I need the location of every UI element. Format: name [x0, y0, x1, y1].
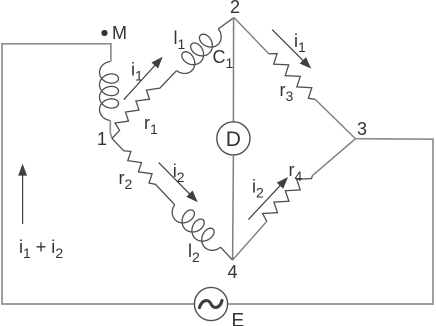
inductor l1 — [177, 29, 222, 74]
current arrow i1+i2 (left branch, upward) — [19, 166, 26, 225]
svg-text:i1 + i2: i1 + i2 — [19, 237, 63, 261]
svg-text:2: 2 — [230, 0, 240, 17]
svg-text:E: E — [232, 311, 245, 326]
resistor r2 — [112, 138, 175, 204]
inductor l2 — [172, 205, 220, 251]
svg-text:D: D — [226, 128, 241, 151]
resistor r3 — [269, 54, 315, 100]
ac source E circle — [194, 287, 227, 320]
inductor coil M branch (vertical coil) — [100, 62, 119, 121]
wire left branch outer loop: top horizontal + left vertical + bottom to source — [2, 44, 194, 304]
svg-text:r3: r3 — [280, 80, 294, 104]
wire coil to node 1 — [110, 121, 112, 139]
wire detector to node 4 — [232, 155, 235, 260]
current arrow i2 (arm 1-4) — [159, 163, 197, 201]
wire node 2 to resistor r3 — [234, 18, 269, 54]
svg-text:M: M — [112, 23, 127, 43]
svg-text:r1: r1 — [144, 113, 158, 137]
svg-text:i2: i2 — [173, 161, 185, 185]
svg-text:i1: i1 — [294, 31, 306, 55]
wire l1 to node 2 — [218, 18, 234, 29]
wire bottom right: source to right edge, up right side, to node 3 — [228, 139, 433, 304]
current arrow i2 (arm 4-3) — [248, 178, 287, 219]
svg-text:i2: i2 — [252, 177, 264, 201]
svg-text:1: 1 — [97, 129, 107, 149]
svg-text:r2: r2 — [119, 168, 133, 192]
wire node 4 to resistor r4 — [233, 221, 267, 260]
svg-text:l2: l2 — [188, 241, 200, 265]
svg-text:4: 4 — [228, 262, 238, 282]
wire l2 to node 4 — [221, 247, 233, 260]
wire r3 to node 3 — [315, 99, 355, 138]
current arrow i1 (arm 2-3) — [272, 30, 310, 68]
terminal dot M — [101, 30, 107, 36]
wire node 2 to detector — [232, 18, 234, 122]
detector D circle — [217, 122, 250, 155]
svg-text:3: 3 — [357, 119, 367, 139]
svg-text:l1: l1 — [174, 28, 186, 52]
svg-text:C1: C1 — [213, 47, 234, 71]
svg-text:i1: i1 — [131, 60, 143, 84]
resistor r1 — [112, 71, 177, 139]
svg-text:r4: r4 — [289, 160, 303, 184]
ac source sine symbol — [200, 301, 223, 308]
resistor r4 — [263, 176, 313, 222]
wire r4 to node 3 — [312, 139, 355, 176]
current arrow i1 (arm 1-2) — [124, 58, 162, 100]
